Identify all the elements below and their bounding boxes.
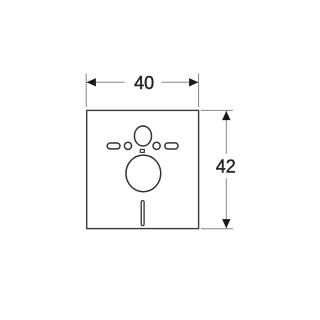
- bottom vertical slot: [141, 201, 144, 226]
- extension line right-bottom: [201, 228, 233, 230]
- extension line top-left: [85, 74, 87, 108]
- text gap for 40: [125, 76, 162, 89]
- left slot hole: [107, 143, 120, 149]
- svg-text:40: 40: [134, 73, 154, 93]
- right small circle hole: [153, 142, 160, 149]
- left small circle hole: [124, 142, 131, 149]
- arrow bottom of 42: [222, 219, 230, 228]
- arrow right of 40: [189, 78, 198, 86]
- large circular hole: [126, 155, 161, 192]
- small square mark: [140, 149, 144, 152]
- svg-text:42: 42: [216, 156, 236, 176]
- dimension line 42: [225, 111, 227, 228]
- text gap for 42: [217, 154, 236, 179]
- dimension line 40: [87, 81, 199, 83]
- extension line top-right: [198, 74, 200, 108]
- arrow left of 40: [87, 78, 96, 86]
- right slot hole: [165, 143, 178, 149]
- extension line right-top: [201, 109, 233, 111]
- arrow top of 42: [222, 111, 230, 120]
- top oval hole: [134, 126, 151, 146]
- plate outline (insulation mat): [87, 110, 199, 228]
